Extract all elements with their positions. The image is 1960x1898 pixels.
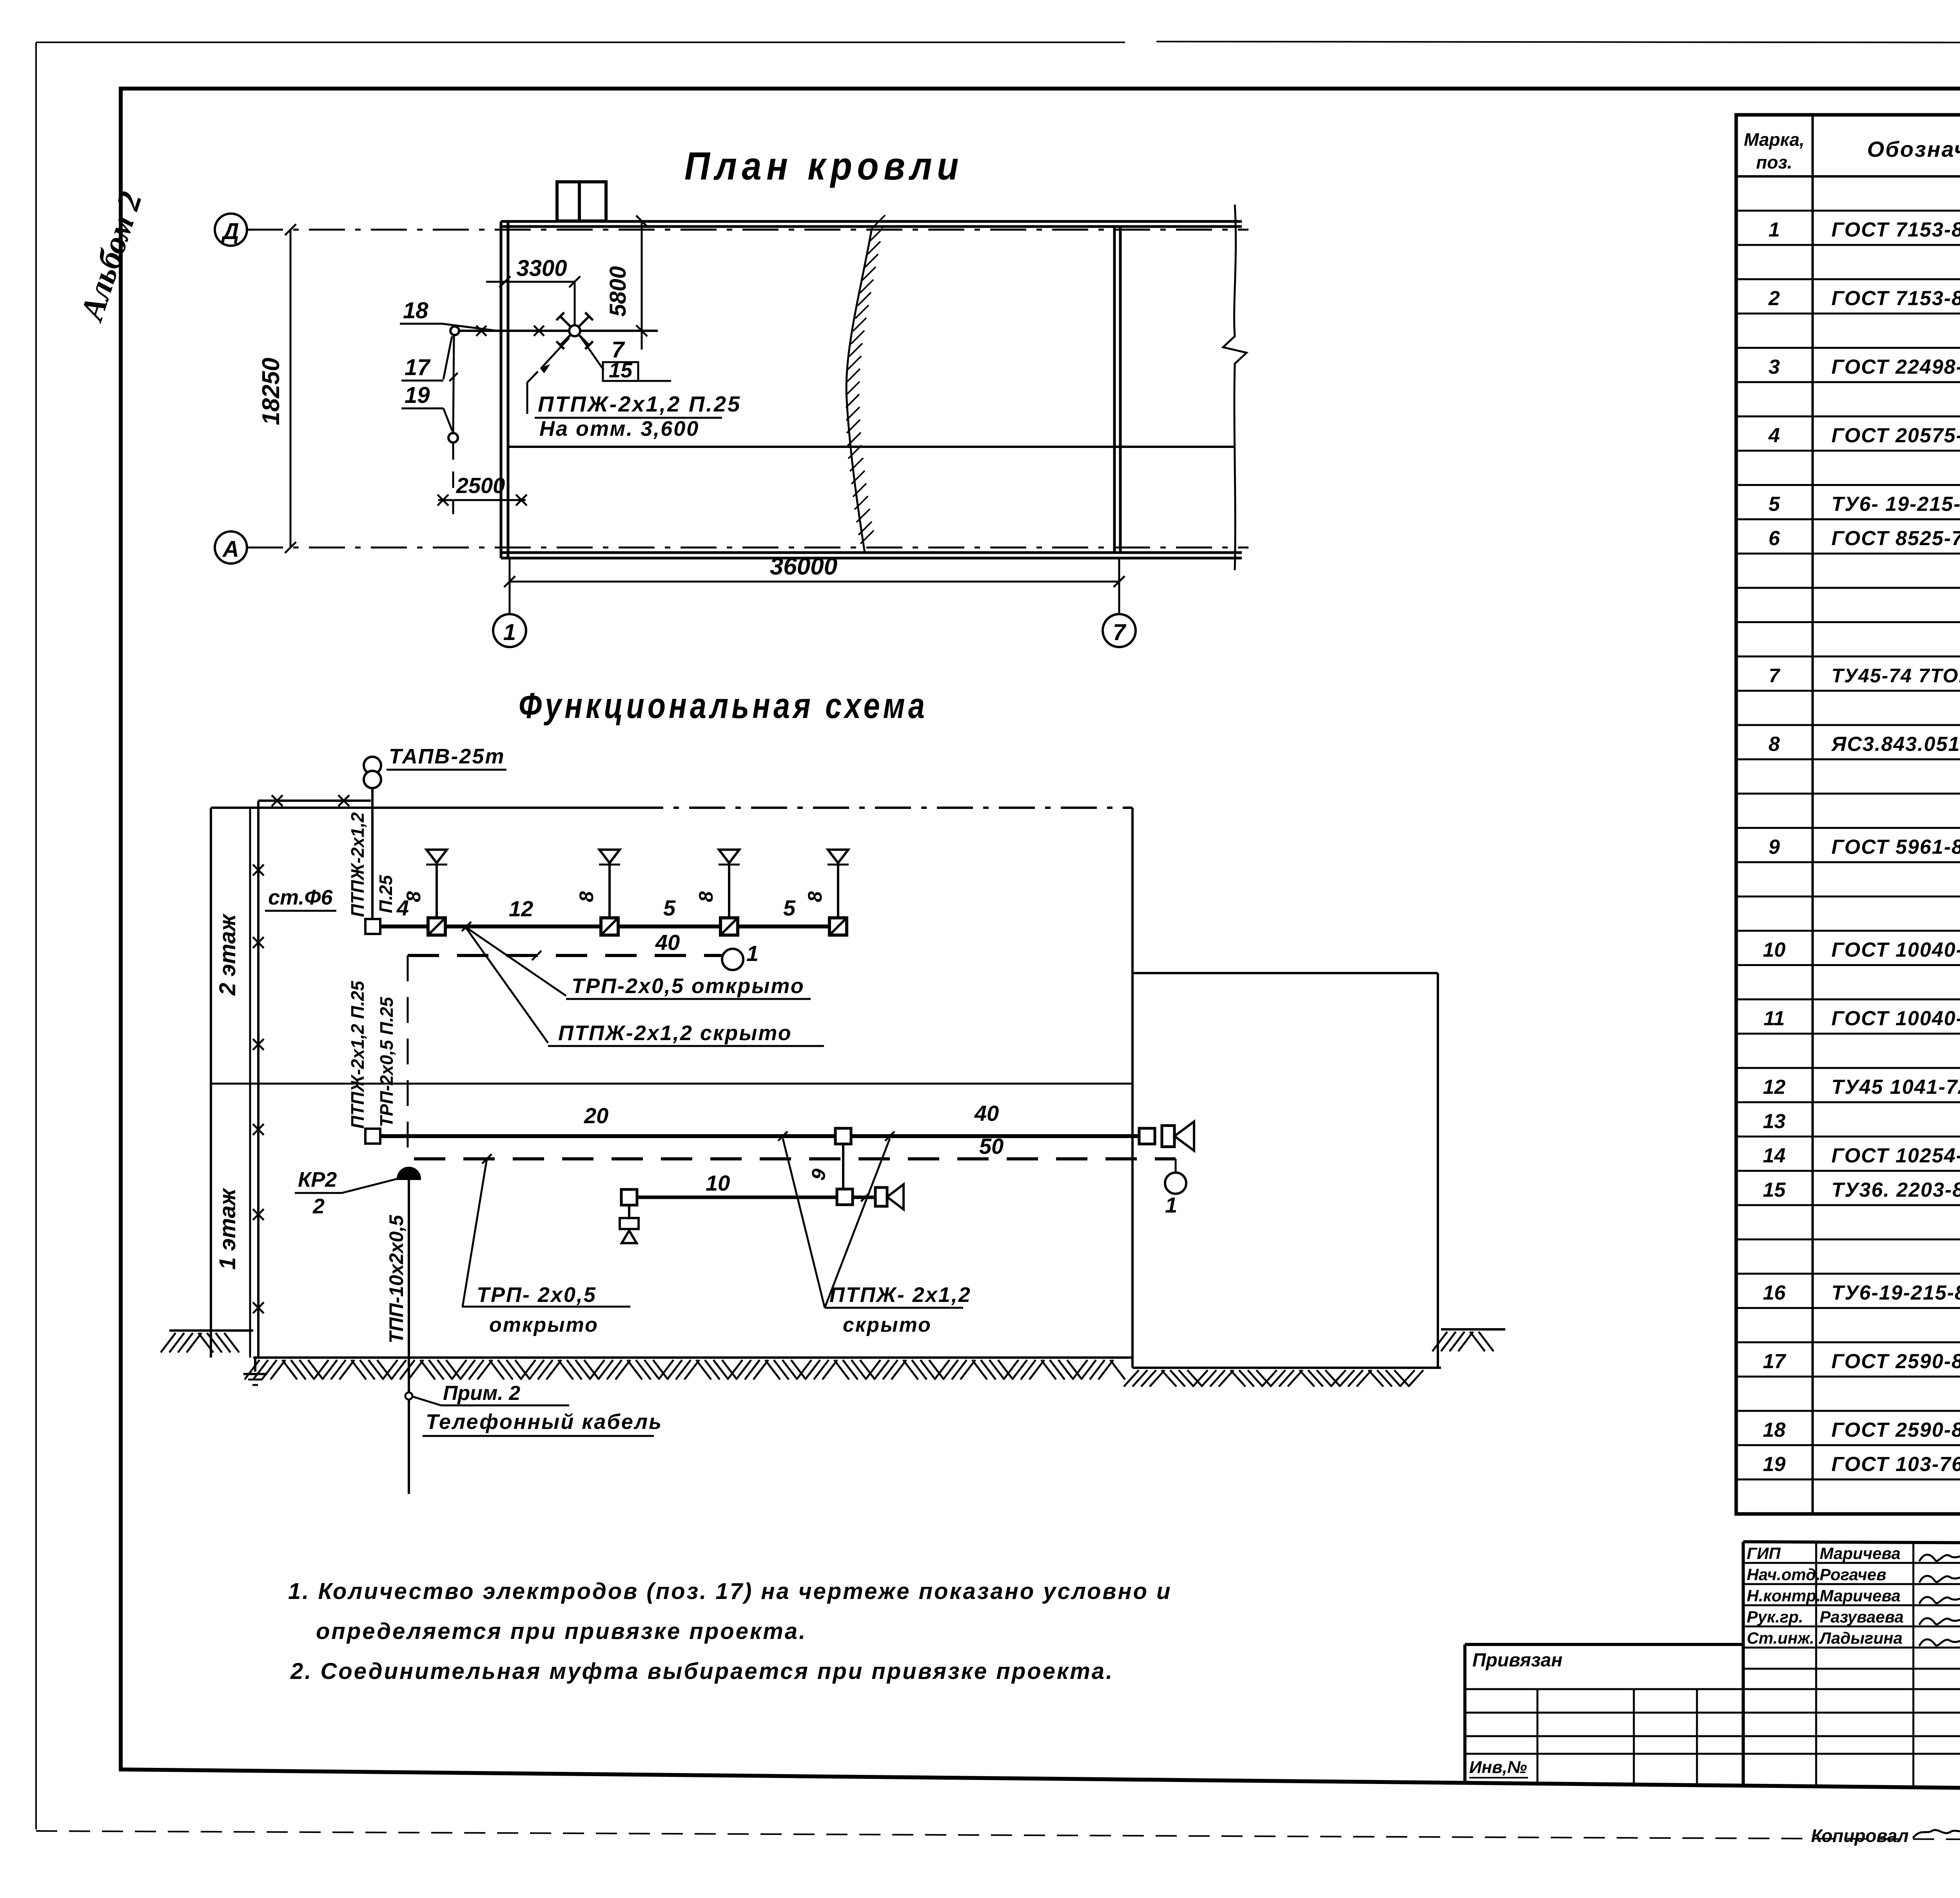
svg-text:ГОСТ 22498-77Е: ГОСТ 22498-77Е [1831,356,1960,379]
svg-text:40: 40 [655,930,680,955]
svg-text:ТУ6-19-215-83: ТУ6-19-215-83 [1831,1282,1960,1304]
transformer drop wire [371,788,374,919]
svg-text:14: 14 [1763,1144,1786,1167]
svg-text:Инв,№: Инв,№ [1469,1758,1527,1777]
radio mast symbol [575,316,589,331]
svg-text:Функциональная схема: Функциональная схема [519,686,928,726]
svg-text:Рук.гр.: Рук.гр. [1747,1608,1803,1626]
svg-text:ГОСТ 10254-75Е: ГОСТ 10254-75Е [1831,1144,1960,1167]
2F dashed phone line corner [407,955,409,1159]
2F dashed phone line [408,954,722,957]
svg-text:5: 5 [663,896,676,920]
leader to cable note with arrow [541,338,569,368]
svg-text:18250: 18250 [258,358,285,425]
spec table outer frame [1736,115,1960,1514]
wire stub to pole circle [459,330,508,332]
outer sheet border bottom (dashed) [36,1831,1960,1842]
leader V to wire notes 2F [465,927,566,996]
ground hatching annex [1124,1370,1139,1387]
dimension 3300 line [505,281,575,283]
svg-text:8: 8 [1769,733,1780,756]
underground cable [408,1358,410,1392]
horn loudspeaker #4 [828,850,848,863]
svg-text:ГОСТ 7153-85: ГОСТ 7153-85 [1831,219,1960,241]
svg-text:17: 17 [405,355,431,380]
dimension 2500 line [438,499,526,501]
leader КР2 [342,1179,397,1193]
svg-text:1: 1 [1165,1193,1177,1217]
svg-text:ТУ6- 19-215-83: ТУ6- 19-215-83 [1831,493,1960,516]
svg-text:П.25: П.25 [376,875,396,913]
drop to telephone 1F [1175,1159,1177,1172]
svg-text:ГОСТ 20575-75Е: ГОСТ 20575-75Е [1831,424,1960,447]
annex right wall [1437,973,1439,1368]
svg-text:ГОСТ 10040-75Е: ГОСТ 10040-75Е [1831,1007,1960,1030]
svg-text:16: 16 [1763,1282,1786,1304]
svg-text:ТРП- 2х0,5: ТРП- 2х0,5 [477,1283,597,1307]
outer sheet border top [36,42,1125,43]
svg-text:20: 20 [584,1103,608,1128]
svg-text:определяется при привязке п: определяется при привязке проекта. [316,1619,807,1644]
svg-text:ТУ36. 2203-84: ТУ36. 2203-84 [1831,1179,1960,1202]
svg-text:На отм. 3,600: На отм. 3,600 [539,417,699,441]
pole small circle [450,326,459,335]
svg-text:12: 12 [509,896,533,921]
svg-text:8: 8 [403,891,425,902]
chimney divider [578,182,581,221]
svg-text:10: 10 [1763,939,1786,961]
privyazan block columns [1537,1689,1539,1784]
staff signatures [1919,1554,1960,1563]
spec table column lines [1811,115,1814,1514]
svg-text:А: А [222,537,239,562]
ground line under annex [1132,1367,1441,1369]
svg-text:Телефонный кабель: Телефонный кабель [426,1410,662,1434]
horn antenna stem #1 [436,865,438,918]
leader 17 [443,336,452,379]
svg-text:ТРП-2х0,5 П.25: ТРП-2х0,5 П.25 [376,996,397,1127]
title block shared grid rows [1465,1688,1960,1690]
spec table row lines [1736,210,1960,212]
svg-text:Ст.инж.: Ст.инж. [1747,1629,1814,1647]
svg-text:6: 6 [1769,527,1780,550]
horn loudspeaker #2 [599,850,620,863]
svg-text:5800: 5800 [605,266,631,317]
1F dashed line [414,1157,1176,1160]
svg-text:ПТПЖ-2х1,2 П.25: ПТПЖ-2х1,2 П.25 [538,392,741,416]
telephone set circle 1F [1165,1173,1186,1194]
earthing symbol [254,1358,256,1372]
axis 1 extension line [509,558,511,614]
svg-text:8: 8 [804,891,826,902]
svg-text:17: 17 [1763,1350,1786,1373]
horn loudspeaker #3 [719,850,739,863]
scheme building right wall [1131,808,1134,1368]
svg-text:ПТПЖ-2х1,2 П.25: ПТПЖ-2х1,2 П.25 [347,980,368,1129]
down conductor vertical [453,335,454,432]
dimension 18250 vertical line [290,230,292,547]
lightning riser with cross marks [257,801,260,1358]
riser top horizontal wire [258,799,371,802]
horn loudspeaker #1 [426,850,447,863]
svg-text:3300: 3300 [516,256,567,281]
limit box UK-2 #2 [601,918,618,935]
svg-text:36000: 36000 [770,553,837,580]
svg-text:2: 2 [1768,287,1780,310]
svg-text:Маричева: Маричева [1820,1586,1900,1605]
grade line left of building [169,1329,253,1332]
svg-text:ГОСТ 103-76: ГОСТ 103-76 [1831,1453,1960,1476]
svg-text:40: 40 [974,1101,999,1126]
1F radio main line [380,1134,1147,1138]
svg-text:11: 11 [1764,1007,1785,1030]
svg-text:2500: 2500 [456,473,505,498]
svg-text:5: 5 [1769,493,1780,516]
svg-text:ГОСТ 7153-86: ГОСТ 7153-86 [1831,287,1960,310]
svg-text:1: 1 [746,941,759,966]
junction box on line 10 [837,1189,853,1205]
roof interior wall (double line) [1113,227,1116,553]
stem from mid box [842,1144,844,1189]
svg-text:ГОСТ 10040-75Е: ГОСТ 10040-75Е [1831,939,1960,961]
svg-text:8: 8 [695,891,717,902]
mid junction box 1F [835,1128,851,1144]
leader 19 [443,408,452,431]
ground hatching main [245,1360,260,1380]
roofing boundary wavy line with hatching [846,228,872,553]
leader to 7/15 flag [580,336,604,370]
distribution box КР2 dome [398,1168,420,1179]
roof antenna feed wire [508,330,658,332]
end box 1F right [1139,1128,1155,1144]
annex top line [1132,972,1438,974]
svg-text:13: 13 [1763,1110,1786,1133]
svg-text:ГОСТ 8525-78Е: ГОСТ 8525-78Е [1831,527,1960,550]
dimension 3300 extension to mast [574,282,576,324]
roof interior horizontal line [508,446,1235,448]
svg-text:15: 15 [1763,1179,1786,1202]
ground line main [253,1356,1132,1359]
svg-text:Копировал: Копировал [1811,1825,1909,1846]
socket line 10 [637,1196,875,1199]
axis Д circle [215,214,247,246]
horn loudspeaker right end [1162,1126,1174,1147]
svg-text:2. Соединительная муфта выби: 2. Соединительная муфта выбирается при п… [290,1659,1114,1684]
box left on line 10 [621,1189,637,1205]
svg-text:3: 3 [1769,356,1780,379]
svg-text:ПТПЖ-2х1,2 скрыто: ПТПЖ-2х1,2 скрыто [558,1021,792,1045]
axis А circle [215,531,247,564]
svg-text:4: 4 [1768,424,1780,447]
cable splice circle [405,1392,412,1399]
svg-text:ТУ45-74 7ТО.433.004 ТУ: ТУ45-74 7ТО.433.004 ТУ [1831,665,1960,687]
svg-text:ГОСТ 5961-84: ГОСТ 5961-84 [1831,836,1960,859]
ground hatching left [161,1333,176,1352]
svg-text:ст.Ф6: ст.Ф6 [268,886,333,909]
svg-text:Марка,: Марка, [1744,129,1805,150]
telephone riser ТПП [408,1179,410,1358]
chimney on roof [557,182,606,221]
building break line right [1223,205,1247,570]
svg-text:План кровли: План кровли [684,144,964,188]
svg-text:2 этаж: 2 этаж [215,913,240,996]
svg-text:Прим. 2: Прим. 2 [443,1382,520,1405]
stem to socket [628,1205,630,1218]
svg-text:7: 7 [1769,665,1780,687]
junction box 2F [365,919,380,934]
limit box UK-2 #3 [720,918,738,935]
svg-text:Ладыгина: Ладыгина [1818,1629,1902,1647]
transformer ТАПВ-25т symbol [364,757,381,774]
svg-text:ЯС3.843.051ТУ: ЯС3.843.051ТУ [1831,733,1960,756]
svg-text:18: 18 [1763,1419,1786,1441]
svg-text:ТУ45 1041-72: ТУ45 1041-72 [1831,1076,1960,1099]
svg-text:19: 19 [405,383,430,408]
svg-text:1: 1 [1769,219,1780,241]
svg-text:10: 10 [706,1171,730,1195]
dimension 36000 line [510,581,1119,583]
svg-text:ГОСТ 2590-88: ГОСТ 2590-88 [1831,1419,1960,1441]
svg-text:Обозначение: Обозначение [1867,137,1960,161]
scheme building inner wall line [249,808,251,1358]
svg-text:7: 7 [1113,620,1127,645]
axis 7 extension line [1118,558,1120,614]
privyazan block outline [1465,1643,1743,1646]
horn antenna stem #3 [728,865,730,918]
limit box UK-2 #1 [428,918,445,935]
2F radio main line [380,925,838,928]
svg-text:Нач.отд.: Нач.отд. [1747,1565,1820,1584]
svg-text:15: 15 [609,359,633,382]
svg-text:Маричева: Маричева [1820,1544,1900,1563]
socket РШР symbol [620,1218,639,1229]
svg-text:8: 8 [575,891,597,902]
svg-text:1. Количество электродов (поз: 1. Количество электродов (поз. 17) на че… [288,1579,1172,1604]
svg-text:скрыто: скрыто [843,1314,932,1336]
svg-text:1: 1 [503,620,516,645]
svg-text:Д: Д [221,219,239,244]
svg-text:2: 2 [312,1195,325,1218]
axis 7 circle [1103,614,1136,647]
roof building bottom wall (double line) [501,551,1242,554]
svg-text:19: 19 [1763,1453,1786,1476]
svg-text:Привязан: Привязан [1472,1650,1563,1671]
svg-text:ТРП-2х0,5 открыто: ТРП-2х0,5 открыто [572,974,805,998]
svg-text:Н.контр.: Н.контр. [1747,1586,1821,1605]
scheme building left wall [210,808,212,1358]
svg-text:ТАПВ-25т: ТАПВ-25т [389,745,505,768]
dimension 5800 line [641,221,643,331]
title block staff table [1742,1542,1745,1786]
grade line right of annex [1441,1328,1505,1331]
svg-text:КР2: КР2 [298,1168,337,1191]
roof building left wall (double line) [500,221,503,558]
leader 18 [442,324,503,332]
axis А dash-dot line [247,547,1249,549]
svg-text:12: 12 [1763,1076,1786,1099]
spec table header line [1736,175,1960,178]
horn antenna stem #2 [608,865,611,918]
down conductor dashed continuation [452,443,454,514]
svg-text:ПТПЖ- 2х1,2: ПТПЖ- 2х1,2 [829,1283,971,1307]
down conductor lower circle [448,433,458,442]
svg-text:ПТПЖ-2х1,2: ПТПЖ-2х1,2 [347,812,368,917]
svg-text:ТПП-10х2х0,5: ТПП-10х2х0,5 [385,1215,407,1343]
axis 1 circle [493,614,526,647]
telephone set circle 2F [722,949,743,970]
svg-text:5: 5 [783,896,796,920]
small horn on line 10 [875,1187,887,1206]
limit box UK-2 #4 [829,918,847,935]
ground hatching right [1432,1332,1447,1351]
svg-text:50: 50 [979,1134,1004,1158]
roof building top wall (double line) [501,220,1242,223]
svg-text:ГИП: ГИП [1747,1544,1781,1563]
svg-text:поз.: поз. [1756,152,1792,172]
svg-text:1 этаж: 1 этаж [215,1187,240,1270]
outer sheet border left [35,42,37,1829]
horn antenna stem #4 [837,865,839,918]
leader V to wire notes 1F [783,1138,825,1308]
junction box 1F [365,1129,380,1144]
scheme building top line [211,807,627,809]
svg-text:9: 9 [1769,836,1780,859]
svg-text:открыто: открыто [489,1314,599,1336]
svg-text:ГОСТ 2590-88: ГОСТ 2590-88 [1831,1350,1960,1373]
svg-text:Разуваева: Разуваева [1820,1608,1904,1626]
axis Д dash-dot line [247,229,1249,231]
scheme floor divider [211,1083,1132,1085]
svg-text:18: 18 [403,298,428,323]
svg-text:Рогачев: Рогачев [1820,1565,1886,1584]
